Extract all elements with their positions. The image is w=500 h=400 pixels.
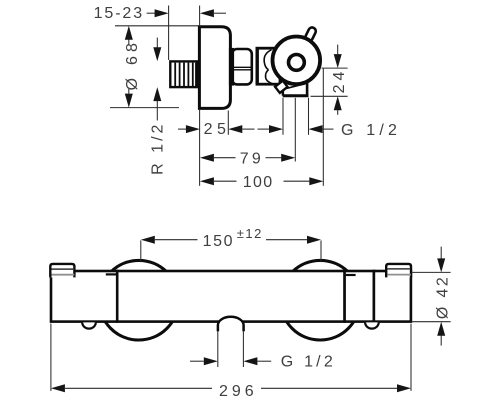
15-23 arrows <box>155 9 169 17</box>
outlet block under handle <box>283 81 309 96</box>
svg-text:G 1/2: G 1/2 <box>281 353 336 370</box>
dim Ø42 col <box>412 271 451 273</box>
escutcheon dome Ø68 <box>199 27 230 109</box>
drain bump left <box>82 322 96 328</box>
bottom drawing dimension texts <box>203 226 452 400</box>
Ø42 arrows <box>437 258 445 272</box>
main tube <box>117 271 344 322</box>
left grip tab <box>50 264 74 278</box>
svg-text:Ø 42: Ø 42 <box>435 275 452 319</box>
handle hub <box>289 55 305 71</box>
dim 24 col <box>322 67 348 69</box>
outlet stub G1/2 <box>218 317 244 332</box>
svg-text:25: 25 <box>204 121 231 138</box>
svg-text:G 1/2: G 1/2 <box>341 122 401 139</box>
top drawing dimension texts <box>94 5 402 191</box>
svg-text:±12: ±12 <box>237 226 263 241</box>
150 arrows <box>141 236 155 244</box>
thread arrows <box>153 47 161 61</box>
dim 100 row <box>322 69 324 186</box>
100 arrows <box>200 177 214 185</box>
svg-text:R 1/2: R 1/2 <box>149 122 166 175</box>
dim 150 row <box>140 240 142 261</box>
left end cap <box>51 271 117 322</box>
dim 15-23 lines <box>147 12 156 14</box>
296 arrows <box>51 384 65 392</box>
dim 25 row <box>178 128 186 130</box>
svg-text:79: 79 <box>240 150 264 167</box>
cartridge bumps behind handle <box>264 50 272 84</box>
seam tick right <box>346 274 356 276</box>
dim Ø68 lines <box>115 25 199 27</box>
left escutcheon <box>99 260 179 340</box>
bottom drawing arrowheads <box>51 236 445 393</box>
seam tick left <box>106 273 116 275</box>
svg-text:24: 24 <box>331 68 348 94</box>
right mid section <box>345 271 374 322</box>
svg-text:150: 150 <box>203 233 235 250</box>
valve body <box>257 47 280 85</box>
24 arrows <box>334 54 342 68</box>
angled union at outlet <box>275 81 288 93</box>
right grip tab <box>386 264 411 278</box>
svg-text:15-23: 15-23 <box>94 5 144 22</box>
top drawing arrowheads <box>125 9 342 185</box>
svg-text:Ø 68: Ø 68 <box>124 39 141 91</box>
thread leader lines <box>156 38 158 48</box>
right escutcheon <box>280 260 360 340</box>
handle stub lever <box>304 26 317 42</box>
svg-text:296: 296 <box>219 383 258 400</box>
25 arrows <box>186 125 200 133</box>
wall thread pipe R1/2 <box>170 61 197 87</box>
79 arrows <box>200 154 214 162</box>
drain bump right <box>365 322 379 328</box>
dim 296 row <box>50 324 52 391</box>
svg-text:100: 100 <box>243 174 274 191</box>
dim 79 row <box>199 110 201 186</box>
right end cap <box>374 271 411 322</box>
G1/2 arrows <box>204 357 218 365</box>
G1/2 outlet arrows <box>269 125 283 133</box>
union nut <box>229 48 252 86</box>
Ø68 arrows <box>125 26 133 40</box>
dim G1/2 bottom <box>190 360 204 362</box>
handle circle <box>273 37 321 85</box>
